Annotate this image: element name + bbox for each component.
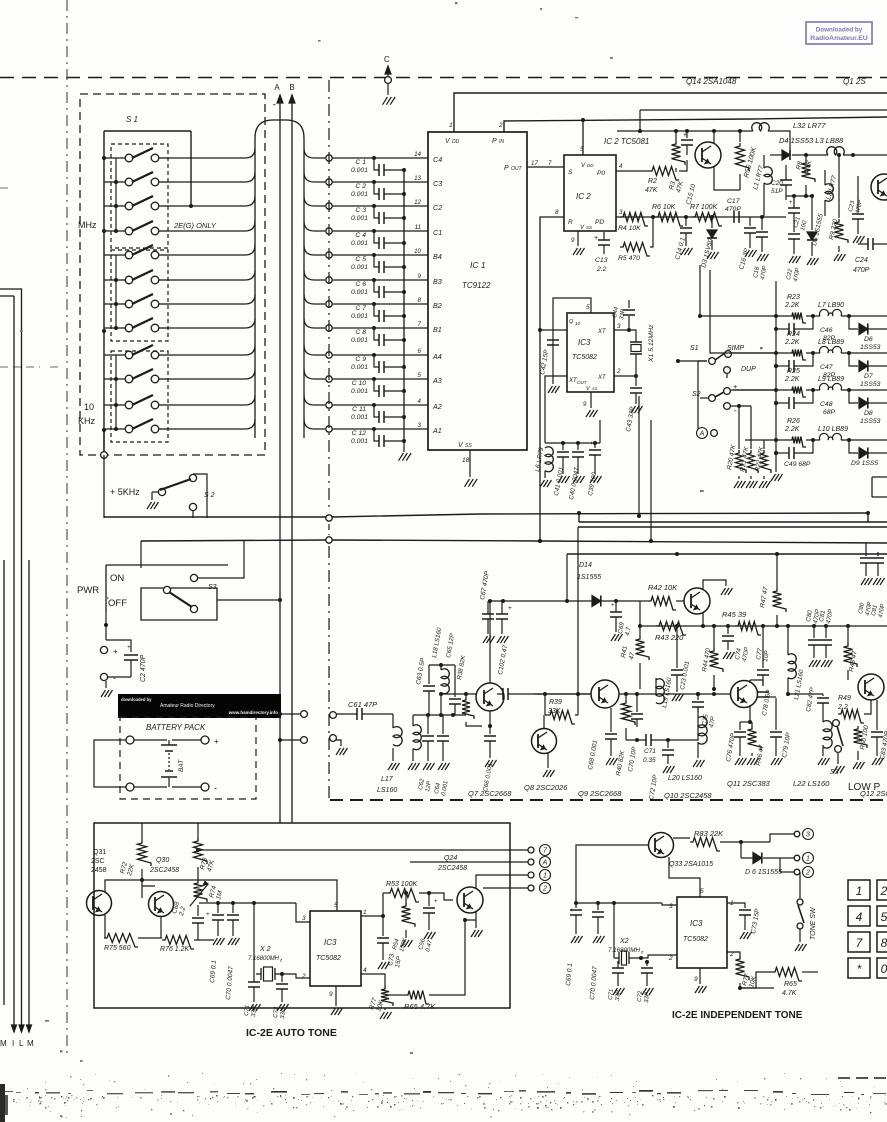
resistor R76 1.2K bbox=[138, 937, 162, 939]
node B arrow bbox=[291, 95, 293, 823]
capacitor C67 470P bbox=[482, 614, 494, 619]
svg-text:R65 4.7K: R65 4.7K bbox=[404, 1002, 436, 1011]
svg-text:TC9122: TC9122 bbox=[462, 281, 491, 290]
inductor L32 LR77 bbox=[752, 123, 770, 131]
wire Q31-Q30 link bbox=[105, 914, 161, 926]
capacitor C64 0.001 bbox=[442, 715, 444, 734]
svg-text:R7 100K: R7 100K bbox=[690, 204, 718, 211]
variable resistor R74 1M bbox=[194, 880, 208, 902]
top dashed section border bbox=[0, 77, 887, 79]
section dash-dot divider bbox=[328, 80, 330, 510]
svg-text:+: + bbox=[590, 441, 594, 447]
svg-text:C17: C17 bbox=[727, 198, 740, 205]
svg-text:4: 4 bbox=[856, 910, 863, 924]
capacitor C70i 0.0047 bbox=[597, 903, 599, 910]
svg-text:A2: A2 bbox=[432, 402, 442, 411]
diode D14 1S1555 bbox=[592, 596, 601, 607]
svg-text:0.35: 0.35 bbox=[643, 757, 656, 764]
wire S3 to B line bbox=[217, 599, 280, 601]
capacitor C71i 33P bbox=[617, 962, 619, 966]
svg-text:C71: C71 bbox=[244, 1005, 251, 1016]
svg-text:Q24: Q24 bbox=[444, 855, 457, 862]
capacitor C20 51P bbox=[780, 180, 792, 185]
wire bus row 8 entry bbox=[168, 318, 255, 328]
capacitor C73c 15P bbox=[361, 916, 383, 936]
wire IC3 pin7 left bbox=[540, 329, 567, 331]
svg-text:R75 560: R75 560 bbox=[104, 945, 131, 952]
capacitor C78 0.5P bbox=[762, 691, 764, 698]
svg-text:+: + bbox=[789, 200, 793, 206]
svg-text:B1: B1 bbox=[433, 325, 442, 334]
svg-text:R5 470: R5 470 bbox=[618, 255, 640, 262]
wire row C3 bbox=[326, 179, 332, 185]
svg-text:3: 3 bbox=[418, 422, 422, 429]
wire row A bbox=[700, 315, 789, 317]
svg-text:B3: B3 bbox=[433, 277, 442, 286]
inductor L7 LB90 bbox=[820, 309, 842, 316]
resistor R50 100 bbox=[857, 714, 859, 720]
svg-text:470P: 470P bbox=[853, 267, 870, 274]
switch S1 pole 10 bbox=[104, 378, 125, 380]
svg-text:IC 2 TC5081: IC 2 TC5081 bbox=[604, 137, 649, 146]
resistor R6 10K bbox=[655, 213, 683, 227]
cap common rail to ground bbox=[403, 170, 405, 443]
resistor R46 47 bbox=[751, 722, 753, 726]
wire bus row 7 exit bbox=[304, 294, 325, 304]
switch S1 pole 9 bbox=[104, 354, 125, 356]
svg-text:0.001: 0.001 bbox=[351, 337, 368, 344]
resistor R20 47K bbox=[738, 404, 740, 449]
capacitor C61 47P bbox=[336, 713, 357, 715]
svg-text:0.001: 0.001 bbox=[351, 289, 368, 296]
wire row A3 bbox=[326, 376, 332, 382]
wire bus outline bbox=[255, 120, 304, 438]
svg-text:ON: ON bbox=[110, 573, 124, 584]
svg-text:33P: 33P bbox=[644, 992, 651, 1003]
svg-text:5: 5 bbox=[418, 372, 422, 379]
wire Vdd local rail bbox=[617, 130, 753, 132]
svg-text:4: 4 bbox=[418, 398, 422, 405]
capacitor C18 470P bbox=[761, 217, 763, 230]
resistor R21 47K bbox=[750, 406, 752, 449]
svg-text:A: A bbox=[699, 431, 705, 438]
wire Q7 base bbox=[441, 693, 476, 695]
wire PD row bbox=[616, 216, 786, 218]
inductor L1 LR77 bbox=[764, 167, 772, 185]
svg-text:2: 2 bbox=[542, 886, 547, 893]
svg-text:D8: D8 bbox=[864, 410, 873, 417]
wire IC4 pin5 up bbox=[142, 880, 337, 911]
transistor Q30 2SC2458 bbox=[149, 892, 174, 917]
wire bus L3 bbox=[578, 526, 887, 528]
wire pin1 to top rail bbox=[454, 93, 887, 132]
wire bus row 2 entry bbox=[168, 172, 255, 182]
diode D9 1SS5 bbox=[849, 440, 858, 453]
svg-text:C61 47P: C61 47P bbox=[348, 700, 377, 709]
resistor R26 2.2K bbox=[789, 437, 806, 448]
switch S3b bbox=[833, 720, 840, 727]
battery pack dashed box bbox=[120, 717, 256, 799]
wire row A1 bbox=[326, 426, 332, 432]
inductor L18 LS160 bbox=[440, 665, 442, 670]
capacitor C62 12P bbox=[427, 715, 429, 734]
svg-text:470P: 470P bbox=[725, 206, 741, 213]
inductor L10 LB89 bbox=[820, 433, 842, 440]
capacitor C21 100 bbox=[788, 208, 800, 213]
svg-text:C2 470P: C2 470P bbox=[140, 654, 147, 682]
svg-text:9: 9 bbox=[694, 976, 698, 983]
IC2 Vss ground bbox=[577, 231, 579, 246]
svg-text:D4 1SS53 L3 LB88: D4 1SS53 L3 LB88 bbox=[779, 136, 844, 145]
capacitor C69 4.7 bbox=[610, 612, 622, 617]
svg-text:18: 18 bbox=[462, 457, 470, 464]
svg-text:TONE SW: TONE SW bbox=[810, 906, 817, 940]
svg-text:0: 0 bbox=[881, 962, 887, 976]
wire line x4 bbox=[3, 560, 5, 1005]
svg-text:DD: DD bbox=[587, 163, 594, 168]
svg-text:*: * bbox=[857, 962, 862, 976]
svg-text:C71: C71 bbox=[644, 748, 656, 755]
svg-text:L17: L17 bbox=[381, 776, 394, 783]
varactor D3 1SV50 bbox=[711, 217, 713, 228]
wire row A2 bbox=[326, 402, 332, 408]
svg-text:Q7 2SC2668: Q7 2SC2668 bbox=[468, 789, 512, 798]
capacitor C63 0.5P bbox=[428, 665, 430, 684]
svg-text:9: 9 bbox=[583, 401, 587, 408]
svg-text:2: 2 bbox=[668, 955, 673, 962]
wire Q33 base rail bbox=[576, 845, 649, 908]
svg-text:D6: D6 bbox=[864, 336, 873, 343]
resistor R25 2.2K bbox=[789, 387, 806, 398]
switch S1 pole 4 bbox=[104, 230, 125, 232]
svg-text:www.hamdirectory.info: www.hamdirectory.info bbox=[228, 710, 279, 715]
wire left edge corner bbox=[0, 289, 22, 1032]
svg-text:A: A bbox=[274, 83, 280, 92]
svg-text:R49: R49 bbox=[838, 695, 851, 702]
svg-text:Downloaded by: Downloaded by bbox=[816, 27, 863, 34]
wire bus row 11 entry bbox=[168, 395, 255, 405]
svg-text:11: 11 bbox=[415, 224, 421, 231]
left edge dark sliver bbox=[0, 1084, 5, 1122]
svg-text:TC5082: TC5082 bbox=[572, 354, 597, 361]
capacitor C10 0.001 bbox=[374, 379, 379, 391]
svg-text:2: 2 bbox=[880, 884, 887, 898]
svg-text:0.001: 0.001 bbox=[351, 438, 368, 445]
svg-text:OUT: OUT bbox=[577, 380, 588, 385]
svg-text:2SC: 2SC bbox=[91, 858, 105, 865]
capacitor C46 82P bbox=[776, 328, 789, 330]
svg-text:IC-2E AUTO TONE: IC-2E AUTO TONE bbox=[246, 1027, 337, 1039]
arrowheads I L M bbox=[12, 1025, 17, 1032]
svg-text:A1: A1 bbox=[432, 426, 442, 435]
svg-text:2: 2 bbox=[301, 973, 306, 980]
wire Q9 base bbox=[534, 693, 591, 695]
diode D5 1S1555 bbox=[811, 196, 813, 230]
capacitor C4 0.001 bbox=[374, 231, 379, 243]
svg-text:R39: R39 bbox=[549, 699, 562, 706]
svg-text:Q33 2SA1015: Q33 2SA1015 bbox=[669, 861, 713, 868]
svg-text:5: 5 bbox=[586, 304, 590, 311]
inductor L9 LB89 bbox=[820, 383, 842, 390]
resistor R5 470 bbox=[620, 243, 650, 257]
svg-text:5: 5 bbox=[881, 910, 887, 924]
resistor R48 47 bbox=[847, 626, 849, 643]
diode D6 1SS53 bbox=[849, 316, 858, 329]
svg-text:M: M bbox=[27, 1039, 34, 1048]
svg-text:C 2: C 2 bbox=[355, 183, 366, 190]
wire L6 rail bbox=[545, 442, 600, 444]
wire Q31 base bbox=[93, 880, 95, 896]
output connectors bbox=[528, 847, 534, 853]
connector pair bbox=[301, 711, 308, 718]
capacitor C74 470P bbox=[727, 626, 729, 634]
key * bbox=[848, 958, 870, 978]
svg-text:R4 10K: R4 10K bbox=[618, 225, 641, 232]
wire bus row 1 exit bbox=[304, 148, 325, 158]
wire Q30 collector bbox=[166, 880, 168, 893]
capacitor C77 10P bbox=[762, 626, 764, 668]
transistor Q11 2SC383 bbox=[731, 681, 758, 708]
capacitor C11 0.001 bbox=[374, 405, 379, 417]
capacitor C9 0.001 bbox=[374, 355, 379, 367]
capacitor C42 15P bbox=[547, 340, 559, 345]
wire PWR common down bbox=[104, 612, 106, 625]
transistor Q9 2SC2668 bbox=[591, 680, 619, 708]
svg-text:+ 5KHz: + 5KHz bbox=[110, 487, 140, 497]
svg-text:33P: 33P bbox=[615, 990, 622, 1001]
svg-text:9: 9 bbox=[329, 991, 333, 998]
transistor Q8 2SC2026 bbox=[532, 729, 557, 754]
wire D14 rail bbox=[488, 600, 640, 602]
svg-text:4: 4 bbox=[619, 163, 623, 170]
wire bus row 3 exit bbox=[304, 196, 325, 206]
wire Q11 collector bbox=[750, 680, 763, 686]
switch S1 pole 1 bbox=[104, 157, 125, 159]
svg-text:R: R bbox=[568, 219, 573, 226]
faint dash mark left bbox=[0, 366, 58, 368]
capacitor C71c 33P bbox=[248, 982, 260, 987]
svg-text:+: + bbox=[570, 907, 574, 914]
svg-text:IC-2E INDEPENDENT TONE: IC-2E INDEPENDENT TONE bbox=[672, 1010, 803, 1021]
svg-text:C47: C47 bbox=[820, 364, 833, 371]
wire x640 down bbox=[639, 601, 641, 633]
svg-text:C20: C20 bbox=[771, 180, 783, 187]
svg-text:L7 LB90: L7 LB90 bbox=[818, 302, 844, 309]
svg-text:2.2K: 2.2K bbox=[784, 339, 800, 346]
capacitor C72c 33P bbox=[281, 974, 283, 982]
inductor L3 LB88 bbox=[827, 147, 845, 155]
resistor R42 10K bbox=[640, 600, 648, 602]
capacitor C75 47P bbox=[697, 694, 699, 700]
inductor L20 LS160 bbox=[697, 707, 699, 718]
resistor R24 2.2K bbox=[789, 350, 806, 361]
wire row B1 bbox=[326, 325, 332, 331]
wire I line bbox=[0, 296, 14, 1032]
switch S3 box bbox=[106, 565, 228, 620]
svg-text:R26: R26 bbox=[787, 418, 800, 425]
wire IC5 pin5 up bbox=[669, 857, 700, 897]
TONE SW bbox=[783, 902, 798, 904]
svg-text:M: M bbox=[0, 1039, 7, 1048]
svg-text:L8 LB89: L8 LB89 bbox=[818, 339, 844, 346]
wire bus row 2 exit bbox=[304, 172, 325, 182]
capacitor C82 47P bbox=[788, 694, 823, 696]
resistor R72 22K bbox=[141, 823, 143, 840]
svg-text:14: 14 bbox=[414, 151, 421, 158]
wire IC2 pin5 to rail bbox=[582, 120, 584, 155]
svg-text:A: A bbox=[542, 860, 548, 867]
transistor Q31 2SC2458 bbox=[87, 891, 112, 916]
wire bus row 9 exit bbox=[304, 345, 325, 355]
capacitor C71 0.35 bbox=[626, 739, 646, 741]
svg-text:TC5082: TC5082 bbox=[683, 936, 708, 943]
svg-text:68P: 68P bbox=[823, 409, 836, 416]
svg-text:I: I bbox=[12, 1039, 14, 1048]
svg-text:10: 10 bbox=[414, 248, 421, 255]
switch S1 pole 7 bbox=[104, 303, 125, 305]
svg-text:R45 39: R45 39 bbox=[722, 610, 747, 619]
wire S2 common bbox=[698, 361, 707, 427]
svg-text:9: 9 bbox=[418, 273, 422, 280]
svg-text:OFF: OFF bbox=[108, 598, 127, 609]
svg-text:B4: B4 bbox=[433, 252, 442, 261]
diode D7 1SS53 bbox=[849, 353, 858, 366]
svg-text:+: + bbox=[434, 899, 438, 905]
svg-text:LS160: LS160 bbox=[377, 787, 397, 794]
S1 inner dashed group boxes bbox=[111, 144, 168, 248]
svg-text:2.2: 2.2 bbox=[596, 266, 607, 273]
capacitor C80 470P bbox=[813, 626, 815, 638]
resistor R47 47 bbox=[776, 560, 778, 588]
resistor R8 4.7K bbox=[805, 155, 807, 160]
capacitor C72 10P bbox=[667, 740, 669, 748]
inductor L17 LS160 bbox=[392, 714, 394, 728]
svg-text:C 10: C 10 bbox=[352, 380, 367, 387]
svg-text:0.001: 0.001 bbox=[351, 240, 368, 247]
resistor R39 33K bbox=[544, 694, 546, 715]
wire bus row 4 exit bbox=[304, 221, 325, 231]
key 2 bbox=[877, 880, 887, 900]
wire right edge stubs bbox=[865, 543, 867, 556]
svg-text:2SC2458: 2SC2458 bbox=[437, 865, 467, 872]
wire row B bbox=[733, 352, 789, 354]
svg-text:7: 7 bbox=[548, 160, 552, 167]
svg-text:S1: S1 bbox=[690, 345, 699, 352]
S1 box exit circle bbox=[103, 430, 105, 450]
wire IC3 pin2 to crystal bottom bbox=[614, 358, 636, 376]
wire pin2 rail bbox=[504, 117, 887, 132]
svg-text:0.001: 0.001 bbox=[351, 264, 368, 271]
svg-text:1S1555: 1S1555 bbox=[577, 574, 601, 581]
capacitor C15 10 bbox=[686, 131, 688, 138]
output lines bbox=[198, 849, 528, 851]
wire amp line bbox=[640, 625, 887, 627]
wire row B2 bbox=[326, 301, 332, 307]
auto tone box bbox=[94, 823, 510, 1008]
svg-text:10: 10 bbox=[84, 402, 94, 412]
wire row A4 bbox=[326, 352, 332, 358]
capacitor C2 0.001 bbox=[374, 182, 379, 194]
diode D4 1SS53 bbox=[770, 154, 782, 156]
svg-text:+: + bbox=[683, 132, 687, 139]
wire tone rail i bbox=[576, 902, 662, 904]
svg-text:C 12: C 12 bbox=[352, 430, 367, 437]
svg-text:+: + bbox=[206, 911, 210, 918]
svg-text:Q31: Q31 bbox=[93, 849, 106, 856]
wire S2 plus to row bbox=[731, 389, 776, 391]
capacitor C39 100 bbox=[594, 443, 596, 448]
key 4 bbox=[848, 906, 870, 926]
IC U3 TC5082 box bbox=[567, 313, 614, 392]
wire bus row 12 entry bbox=[168, 419, 255, 429]
svg-text:DUP: DUP bbox=[741, 366, 756, 373]
svg-text:2458: 2458 bbox=[91, 867, 107, 874]
svg-text:+: + bbox=[113, 647, 118, 656]
svg-text:0.001: 0.001 bbox=[351, 414, 368, 421]
svg-text:P: P bbox=[504, 165, 509, 172]
svg-text:2.2K: 2.2K bbox=[784, 426, 800, 433]
capacitor C5 0.001 bbox=[374, 255, 379, 267]
svg-text:IC3: IC3 bbox=[690, 919, 703, 928]
capacitor C3 0.001 bbox=[374, 206, 379, 218]
svg-text:X1 5.12MHz: X1 5.12MHz bbox=[648, 324, 655, 363]
capacitor C23b 0.001 bbox=[676, 626, 678, 668]
resistor R77i 10K bbox=[727, 952, 740, 956]
transistor Q15 bbox=[695, 142, 721, 168]
resistor R43 220 bbox=[656, 622, 686, 636]
ground battery bbox=[104, 677, 107, 686]
svg-text:C 7: C 7 bbox=[355, 305, 366, 312]
svg-text:DD: DD bbox=[452, 139, 460, 145]
capacitor C66 0.001 bbox=[488, 724, 492, 728]
wire battery left bbox=[94, 740, 126, 787]
capacitor C68b 2.2 bbox=[173, 903, 181, 905]
svg-text:13: 13 bbox=[414, 175, 421, 182]
svg-text:0.001: 0.001 bbox=[351, 388, 368, 395]
svg-text:L: L bbox=[19, 1039, 24, 1048]
wire bus row 3 entry bbox=[168, 196, 255, 206]
resistor R4 10K bbox=[620, 213, 648, 227]
svg-text:Q30: Q30 bbox=[156, 857, 169, 864]
svg-text:S2: S2 bbox=[692, 391, 701, 398]
wire row C1 bbox=[326, 228, 332, 234]
wire bus L2 bbox=[579, 513, 887, 522]
svg-text:C46: C46 bbox=[820, 327, 833, 334]
wire PLL verticals bbox=[638, 396, 640, 516]
svg-text:C71: C71 bbox=[608, 989, 615, 1000]
svg-text:PD: PD bbox=[595, 219, 604, 226]
svg-text:IC 1: IC 1 bbox=[470, 260, 486, 270]
svg-text:S 1: S 1 bbox=[126, 115, 138, 124]
crystal X1 5.12MHz bbox=[635, 338, 637, 358]
svg-text:6: 6 bbox=[418, 348, 422, 355]
S1 group commons bbox=[115, 158, 117, 429]
key 5 bbox=[877, 906, 887, 926]
capacitor C7 0.001 bbox=[374, 304, 379, 316]
svg-text:C 9: C 9 bbox=[355, 356, 366, 363]
svg-text:Amateur Radio Directory: Amateur Radio Directory bbox=[160, 703, 215, 709]
wire bus row 12 exit bbox=[304, 419, 325, 429]
wire bus row 11 exit bbox=[304, 395, 325, 405]
svg-text:S3: S3 bbox=[830, 769, 839, 776]
switch S1 pole 6 bbox=[104, 279, 125, 281]
wire r8 bottom rail bbox=[786, 195, 812, 197]
switch S1 pole 11 bbox=[104, 404, 125, 406]
inductor L19 LS160 bbox=[655, 686, 657, 694]
svg-text:SS: SS bbox=[465, 443, 472, 449]
svg-text:-: - bbox=[214, 783, 217, 793]
svg-text:C13: C13 bbox=[595, 257, 608, 264]
